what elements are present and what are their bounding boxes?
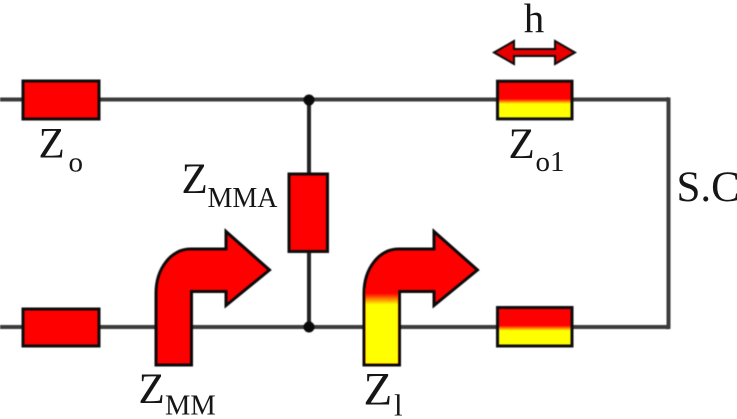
- svg-text:S.C: S.C: [677, 164, 737, 211]
- bent arrow ZMM (red curved arrow): [156, 232, 270, 366]
- resistor ZMMA (middle vertical red block): [289, 174, 328, 252]
- svg-text:o: o: [69, 147, 84, 179]
- label ZMM: [139, 366, 216, 419]
- svg-text:Z: Z: [509, 121, 535, 168]
- wire middle vertical shunt: [307, 100, 311, 328]
- resistor Zo (top left red block): [23, 81, 99, 119]
- label ZMMA: [182, 156, 279, 214]
- resistor bottom-right (red/yellow block): [498, 308, 573, 347]
- label Zo: [39, 121, 84, 179]
- wire right vertical (short-circuit stub): [667, 98, 671, 330]
- svg-text:l: l: [394, 388, 403, 419]
- label Zl: [364, 364, 403, 419]
- node A (top junction dot): [304, 95, 315, 106]
- label Zo1: [509, 121, 565, 178]
- svg-text:Z: Z: [182, 156, 208, 203]
- wire top horizontal: [0, 98, 669, 102]
- svg-text:MM: MM: [165, 390, 216, 419]
- svg-text:Z: Z: [364, 364, 393, 416]
- svg-text:MMA: MMA: [208, 183, 279, 214]
- bent arrow Zl (red curved arrow with yellow stem): [364, 232, 478, 366]
- svg-text:Z: Z: [39, 121, 65, 168]
- wire bottom horizontal: [0, 325, 669, 329]
- svg-text:h: h: [524, 0, 545, 41]
- dimension arrow h (red double-headed): [494, 41, 575, 64]
- node B (bottom junction dot): [304, 322, 315, 333]
- svg-text:Z: Z: [139, 366, 165, 413]
- resistor Zo1 (top right red/yellow block): [498, 81, 573, 119]
- svg-text:o1: o1: [536, 146, 565, 178]
- resistor bottom-left (red block): [23, 309, 99, 346]
